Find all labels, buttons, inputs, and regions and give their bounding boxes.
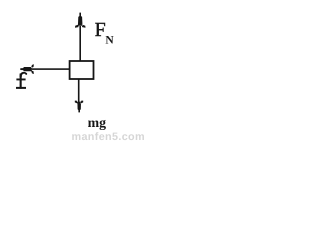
svg-text:N: N — [105, 35, 114, 47]
svg-text:mg: mg — [88, 115, 106, 131]
svg-text:manfen5.com: manfen5.com — [72, 131, 145, 141]
arrowhead down (weight) — [75, 101, 83, 113]
arrowhead left (friction) — [20, 64, 34, 74]
wire: up arrow shaft — [79, 26, 81, 62]
wire: left arrow shaft — [32, 68, 70, 70]
wire: down arrow shaft — [78, 79, 80, 102]
arrowhead up (normal force) — [75, 13, 86, 28]
svg-text:F: F — [95, 19, 106, 41]
box (block) — [70, 61, 94, 79]
label f (friction) — [16, 72, 27, 89]
